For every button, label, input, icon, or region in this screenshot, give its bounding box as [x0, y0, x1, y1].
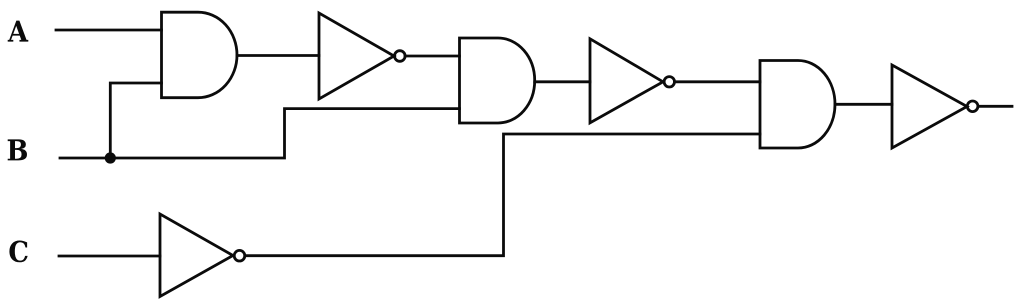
wire U2 output to AND gate U3 [405, 55, 459, 58]
inverter U6 triangle [892, 65, 967, 148]
inverter U4 bubble [664, 77, 674, 87]
node B junction dot [105, 152, 116, 163]
node C label [9, 241, 27, 263]
wire U3 output to inverter U4 [535, 80, 590, 83]
AND gate U1 [162, 12, 238, 98]
node A label [8, 21, 29, 42]
wire U7 output up to U5 second input [245, 134, 760, 256]
inverter U2 triangle [319, 13, 394, 99]
node B label [8, 139, 27, 160]
wire final output [978, 105, 1012, 108]
wire U4 output to AND gate U5 [675, 80, 761, 83]
wire B input horizontal [60, 109, 460, 158]
inverter U6 bubble [967, 101, 978, 112]
inverter U7 triangle [160, 214, 233, 297]
wire B branch up to U1 second input [110, 83, 161, 158]
AND gate U5 [760, 61, 835, 149]
wire U1 output to inverter U2 [237, 54, 319, 57]
inverter U4 triangle [590, 39, 663, 123]
wire U5 output to inverter U6 [835, 103, 892, 106]
wire A input to AND gate U1 [56, 29, 162, 32]
AND gate U3 [460, 38, 535, 123]
inverter U7 bubble [234, 250, 245, 261]
wire C input to inverter U7 [59, 255, 160, 258]
inverter U2 bubble [395, 51, 406, 62]
